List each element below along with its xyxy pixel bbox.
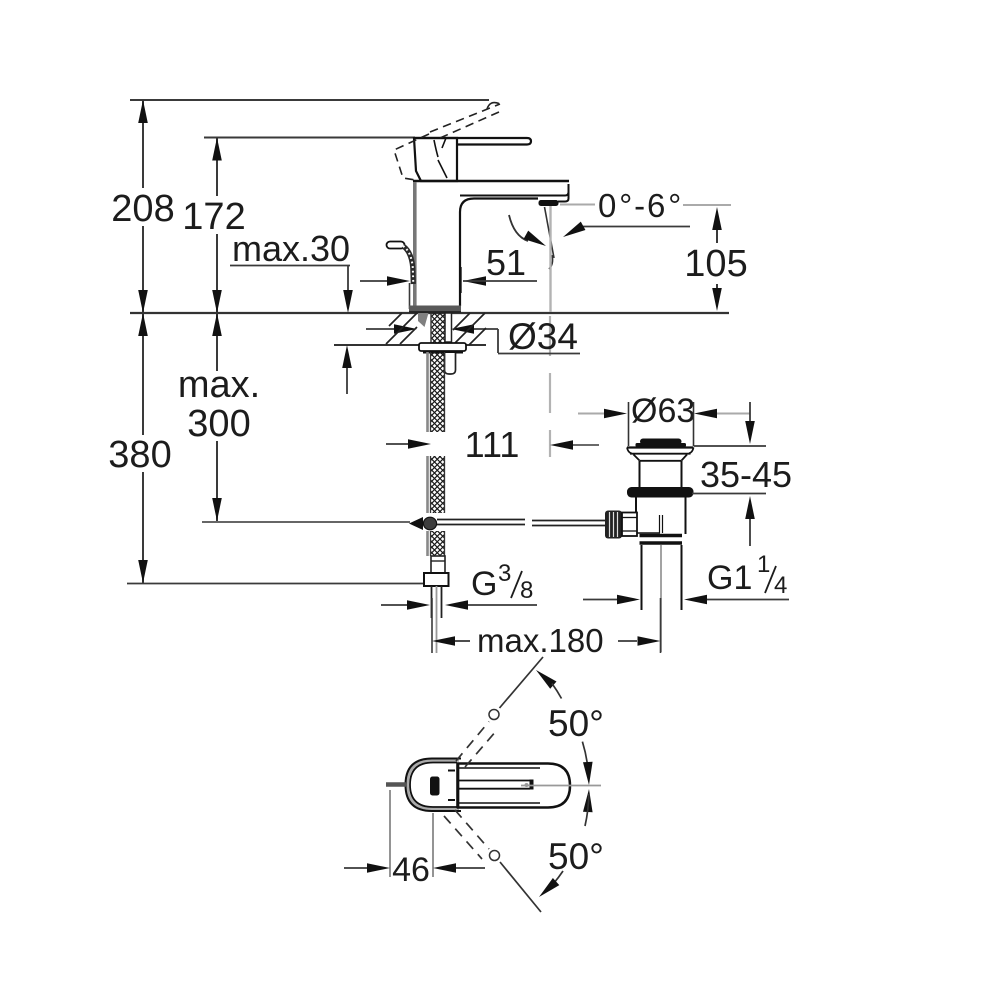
supply hose upper segment — [426, 352, 429, 432]
rod nut — [622, 513, 637, 537]
dim 46 extension lines — [389, 790, 391, 877]
pop-up neck — [639, 461, 641, 487]
svg-text:3: 3 — [498, 560, 511, 587]
svg-text:50°: 50° — [548, 836, 604, 877]
faucet spout underside — [460, 199, 538, 283]
svg-text:50°: 50° — [548, 703, 604, 744]
dim 172 vertical line — [216, 138, 218, 197]
svg-text:8: 8 — [520, 577, 533, 604]
svg-text:51: 51 — [486, 242, 526, 283]
faucet body left edge (gray) — [413, 182, 417, 306]
tailpipe — [641, 545, 643, 610]
svg-text:46: 46 — [392, 851, 430, 889]
G 3/8 tailpiece pipe — [431, 586, 433, 618]
faucet spout top plate — [413, 180, 569, 182]
body cap shading between walls — [408, 761, 459, 810]
supply hose lower segment — [426, 531, 429, 556]
coupling nut — [640, 534, 683, 537]
svg-text:max.180: max.180 — [477, 622, 604, 659]
small ticks — [448, 771, 455, 801]
wire: countertop deck top line — [130, 312, 729, 314]
pop-up plug top — [640, 439, 682, 445]
wire: 380 bottom reference line — [127, 583, 431, 585]
mounting stud and nut — [445, 353, 456, 374]
faucet handle block — [414, 138, 457, 181]
horizontal pop-up rod — [437, 519, 525, 521]
aerator — [539, 200, 559, 206]
wire: countertop deck bottom line — [334, 344, 486, 346]
svg-text:Ø34: Ø34 — [508, 316, 578, 357]
svg-text:4: 4 — [774, 572, 787, 599]
threaded shank in hole — [431, 313, 445, 344]
pill inner offset lines — [459, 767, 540, 769]
body cap inner wall — [410, 763, 457, 808]
dashed raised lever — [394, 134, 429, 181]
lower 50 degree arc — [583, 789, 594, 812]
pop-up pull rod behind faucet — [387, 242, 405, 249]
dim 208 vertical line — [142, 100, 144, 188]
svg-text:105: 105 — [684, 243, 747, 285]
hatch right of hole — [453, 313, 486, 345]
upper rotation construction — [456, 722, 489, 762]
svg-text:G1: G1 — [707, 559, 752, 597]
svg-text:max.: max. — [178, 364, 260, 406]
dim 380 vertical line — [142, 313, 144, 435]
lever left end bar — [456, 763, 459, 808]
spout angle indicator lines — [545, 207, 555, 258]
lower rotation construction — [455, 810, 489, 849]
supply hose middle segment — [426, 456, 429, 513]
svg-text:0°-6°: 0°-6° — [598, 187, 683, 224]
body cap outer wall — [406, 759, 462, 812]
pop-up flange — [627, 446, 694, 448]
faucet lever arm — [414, 138, 531, 145]
svg-text:111: 111 — [465, 424, 520, 465]
svg-text:35-45: 35-45 — [700, 454, 792, 495]
hatch left of hole — [386, 313, 417, 344]
svg-text:G: G — [471, 565, 497, 603]
svg-text:Ø63: Ø63 — [631, 392, 695, 430]
knurled adjuster knob — [605, 511, 622, 539]
pop-up rod tee / ball joint — [409, 517, 423, 530]
hose end fitting — [431, 556, 445, 573]
upper 50 degree arc — [533, 666, 557, 688]
wire: max.300 bottom reference line (pop-up rod extension) — [202, 521, 410, 523]
svg-text:max.30: max.30 — [232, 228, 350, 269]
svg-text:208: 208 — [111, 188, 174, 230]
supply stub — [386, 782, 406, 787]
wire: lever-top reference line (172) — [204, 137, 415, 139]
faucet body right edge near base — [459, 282, 461, 306]
svg-text:1: 1 — [757, 551, 770, 578]
plan centerline — [521, 785, 601, 787]
lever top view (pill) — [458, 764, 570, 808]
waste body — [635, 497, 637, 534]
dim max.300 vertical line — [216, 313, 218, 371]
G 3/8 nut — [424, 573, 449, 586]
lever slot — [459, 780, 530, 782]
water stream centerline — [549, 206, 551, 312]
wire: top reference line (208) — [130, 99, 489, 101]
faucet base plate — [409, 306, 461, 313]
lever hole (black) — [430, 777, 440, 796]
mounting washer — [419, 343, 466, 351]
rubber seal ring — [627, 487, 694, 498]
svg-text:380: 380 — [108, 434, 171, 476]
svg-text:300: 300 — [187, 403, 250, 445]
dim diameter 34 — [366, 328, 394, 330]
